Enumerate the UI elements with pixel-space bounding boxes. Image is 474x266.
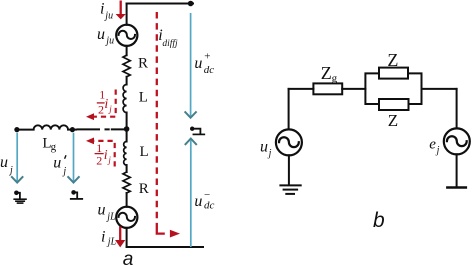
svg-text:j: j [8,165,13,176]
svg-text:ju: ju [103,11,113,22]
svg-text:j: j [107,155,111,165]
svg-text:i: i [100,0,104,17]
svg-text:j: j [108,104,112,114]
svg-text:u: u [0,154,8,171]
svg-text:+: + [204,51,210,63]
svg-text:u: u [98,202,106,219]
svg-text:L: L [140,144,149,160]
svg-text:u: u [194,55,202,72]
svg-text:Z: Z [387,50,398,70]
svg-text:2: 2 [98,103,104,117]
svg-text:u: u [260,138,268,155]
svg-text:Z: Z [388,111,398,130]
svg-text:L: L [139,90,148,106]
svg-text:jL: jL [105,212,116,223]
svg-text:jL: jL [106,237,117,248]
svg-text:a: a [123,249,134,266]
svg-text:b: b [373,209,385,232]
svg-text:ju: ju [104,35,114,46]
svg-text:R: R [138,56,148,72]
svg-text:i: i [104,97,108,112]
svg-text:g: g [332,73,338,85]
svg-text:j: j [61,166,66,177]
svg-text:g: g [51,141,57,153]
svg-text:diffj: diffj [162,38,178,49]
svg-text:u: u [97,26,105,43]
svg-text:i: i [101,228,105,245]
svg-text:u: u [194,193,202,210]
svg-text:dc: dc [204,64,215,76]
svg-text:Z: Z [321,63,332,83]
svg-text:R: R [139,181,149,197]
svg-text:2: 2 [96,154,102,168]
svg-text:dc: dc [204,199,215,211]
svg-text:i: i [104,148,108,163]
svg-text:e: e [429,136,436,152]
svg-text:u: u [53,155,61,172]
